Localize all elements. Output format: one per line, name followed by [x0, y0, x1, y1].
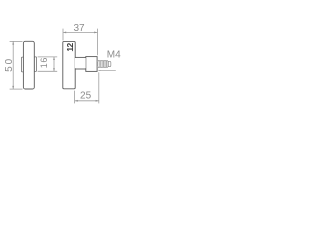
- dimension 25 arrow right: [96, 100, 99, 102]
- svg-text:25: 25: [80, 90, 92, 101]
- side view: neck bottom line: [75, 68, 86, 70]
- dimension 25 dim line: [75, 100, 99, 102]
- side view: neck (white covers bar edge and flange edge): [75, 58, 86, 68]
- dimension 37 arrow right: [94, 31, 97, 33]
- dimension 16 extension line bottom: [38, 70, 58, 72]
- left view: neck tab right (flange peeking right of plate): [34, 57, 36, 72]
- dimension 37 dim line: [63, 31, 97, 33]
- dimension 16 arrow down: [53, 68, 55, 71]
- dimension 37 extension line right: [97, 29, 99, 56]
- svg-text:12: 12: [65, 42, 75, 51]
- M4 leader line: [98, 70, 115, 72]
- dimension 50 dim line: [12, 41, 14, 89]
- dimension 37 arrow left: [63, 31, 66, 33]
- side view: neck top line: [75, 56, 86, 58]
- stud thread bottom edge: [97, 67, 108, 69]
- dimension 16 dim line: [53, 57, 55, 71]
- svg-text:16: 16: [39, 57, 49, 68]
- dimension 25 extension line right: [98, 72, 100, 103]
- dimension 37 extension line left: [62, 29, 64, 41]
- stud thread coils: [98, 61, 108, 68]
- dimension 50 arrow up: [12, 42, 14, 45]
- side view: grip bar: [63, 41, 75, 88]
- dimension 25 arrow left: [75, 100, 78, 102]
- dimension 16 extension line top: [38, 56, 58, 58]
- svg-text:37: 37: [73, 23, 85, 34]
- svg-text:50: 50: [4, 57, 15, 72]
- dimension 50 arrow down: [12, 86, 14, 89]
- stud thread band backdrop: [97, 60, 107, 67]
- dimension 25 extension line left: [74, 91, 76, 104]
- left view: knob grip plate: [23, 41, 34, 89]
- svg-text:M4: M4: [107, 49, 121, 60]
- stud thread top edge: [97, 60, 108, 62]
- side view: flange: [86, 57, 97, 72]
- M4 leader arrow: [98, 70, 100, 71]
- left view: neck tab left (flange peeking left of plate): [21, 57, 23, 72]
- stud cap (tip): [108, 61, 111, 66]
- dimension 50 extension line top: [10, 40, 23, 42]
- dimension 50 extension line bottom: [10, 88, 23, 90]
- dimension 16 arrow up: [53, 57, 55, 60]
